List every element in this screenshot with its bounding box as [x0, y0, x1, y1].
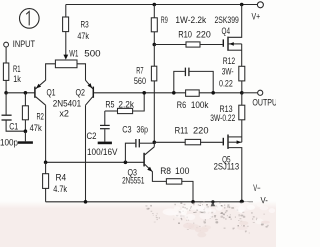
node junction top rail R9 [153, 3, 157, 7]
svg-text:R6: R6 [177, 100, 186, 110]
svg-text:R4: R4 [56, 173, 67, 183]
resistor R4 [43, 162, 68, 194]
svg-text:Q2: Q2 [76, 87, 86, 97]
resistor R1 [3, 63, 21, 84]
transistor Q3 [122, 142, 154, 185]
V+ supply rail wire [66, 4, 257, 6]
wire R9 to node A [153, 32, 155, 45]
resistor R13 [210, 93, 245, 123]
svg-text:100k: 100k [191, 100, 209, 110]
node VAS collector junction [153, 141, 157, 145]
resistor R7 [134, 45, 157, 87]
svg-text:220: 220 [193, 125, 209, 135]
capacitor C1 [0, 93, 18, 148]
mosfet Q4 2SK399 [215, 5, 242, 67]
svg-text:220: 220 [196, 29, 211, 39]
ground symbol input [18, 131, 33, 144]
svg-text:0.22: 0.22 [219, 79, 233, 89]
wire R7 bottom to VAS node [153, 81, 155, 142]
svg-text:R11: R11 [175, 125, 189, 135]
wire R12 to output node [241, 81, 243, 93]
resistor R6 [177, 90, 209, 110]
wire Q3 emitter to R8 [152, 171, 166, 181]
node A junction [153, 43, 157, 47]
V+ terminal [252, 2, 264, 22]
svg-text:1k: 1k [13, 74, 21, 84]
svg-text:3W-0.22: 3W-0.22 [210, 113, 235, 123]
wire Q2 collector down [85, 105, 87, 202]
resistor R11 [154, 125, 222, 144]
svg-text:R5: R5 [105, 99, 114, 109]
svg-text:V+: V+ [252, 12, 261, 22]
wire R3 to W1 wiper [65, 32, 67, 55]
resistor R2 [22, 106, 44, 133]
svg-text:47k: 47k [77, 31, 89, 41]
svg-text:R1: R1 [13, 64, 21, 74]
svg-text:R8: R8 [160, 166, 171, 176]
svg-text:100/16V: 100/16V [87, 147, 118, 157]
svg-text:2SJ113: 2SJ113 [214, 162, 240, 172]
resistor R8 [160, 166, 189, 184]
circled figure number 1 [20, 9, 40, 29]
svg-text:OUTPUT: OUTPUT [252, 97, 276, 107]
wire Q1 collector down [45, 105, 47, 162]
wire W1 left to Q1 emitter [46, 64, 56, 81]
node R5 riser [142, 91, 146, 95]
wire R8 to negative rail [182, 181, 193, 201]
node R8 rail [191, 200, 195, 204]
svg-text:2N5401: 2N5401 [53, 98, 81, 108]
svg-text:R9: R9 [161, 15, 168, 25]
svg-text:4.7k: 4.7k [53, 184, 67, 194]
svg-text:100: 100 [175, 166, 189, 176]
resistor R12 [219, 56, 245, 89]
resistor R10 [154, 29, 222, 47]
svg-text:2N5551: 2N5551 [122, 176, 144, 186]
V- labels [253, 183, 268, 206]
node C1/R2 ground junction [24, 129, 28, 133]
svg-text:500: 500 [84, 48, 100, 58]
mosfet Q5 2SJ113 [214, 135, 242, 202]
svg-text:47k: 47k [30, 123, 43, 133]
artifact arrow on rail [211, 200, 216, 206]
svg-text:1W-2.2k: 1W-2.2k [175, 15, 206, 25]
svg-text:W1: W1 [69, 48, 78, 58]
resistor R5 [105, 93, 144, 114]
wire R2 top [24, 93, 26, 106]
svg-text:Q1: Q1 [47, 87, 56, 97]
ground symbol C2 [98, 129, 112, 144]
feedback cap over R6 [174, 68, 213, 93]
node R6 right [211, 91, 215, 95]
node C3 branch [124, 161, 128, 165]
svg-text:36p: 36p [137, 125, 149, 135]
svg-text:2SK399: 2SK399 [215, 15, 239, 25]
wire R1 to base node [5, 80, 7, 92]
svg-text:100p: 100p [0, 138, 18, 148]
node Q5 drain rail [240, 200, 244, 204]
svg-text:INPUT: INPUT [13, 39, 36, 49]
INPUT terminal [4, 39, 36, 49]
resistor R9 [151, 5, 206, 32]
svg-text:R10: R10 [178, 29, 192, 39]
svg-text:2.2k: 2.2k [118, 99, 134, 109]
wire Q1 collector to Q3 base [46, 161, 144, 163]
svg-text:R3: R3 [81, 20, 89, 30]
OUTPUT terminal [242, 90, 282, 107]
svg-text:560: 560 [134, 76, 146, 86]
capacitor C2 [87, 111, 118, 157]
svg-text:R2: R2 [37, 111, 44, 121]
node Q1 collector / R4 [44, 161, 48, 165]
svg-text:V−: V− [253, 183, 260, 193]
potentiometer W1 [55, 48, 100, 67]
wire C1 bottom to R2 bottom [6, 121, 25, 132]
wire R2 bottom [24, 120, 26, 131]
wire Q2 base feedback row [94, 92, 242, 94]
node R1/base junction [4, 91, 8, 95]
svg-text:3W-: 3W- [222, 66, 234, 76]
wire Q1 base [6, 92, 34, 94]
svg-text:R7: R7 [136, 66, 143, 76]
svg-text:R12: R12 [223, 56, 235, 66]
W1 wiper arrow [63, 55, 68, 60]
svg-text:C2: C2 [87, 131, 97, 141]
node junction top rail Q4 drain [240, 3, 244, 7]
node R2 top [24, 91, 28, 95]
wire W1 right to Q2 emitter [77, 64, 86, 81]
V- negative rail [46, 201, 242, 203]
wire R4 to rail [45, 188, 47, 201]
svg-text:x2: x2 [59, 109, 69, 119]
scan noise artifacts bottom [145, 201, 275, 237]
svg-text:Q4: Q4 [222, 26, 231, 36]
svg-text:C1: C1 [9, 122, 18, 132]
capacitor C3 [122, 125, 154, 163]
rail tail to V- label [242, 201, 253, 203]
node R6 left [172, 91, 176, 95]
resistor R3 [63, 5, 90, 41]
svg-text:C3: C3 [122, 125, 131, 135]
transistor Q1 [35, 80, 56, 105]
transistor Q2 [53, 80, 94, 118]
node Q2 collector rail [84, 200, 88, 204]
node output junction [240, 91, 244, 95]
wire INPUT to R1 [5, 47, 7, 63]
wire R13 to Q5 source [241, 120, 243, 142]
